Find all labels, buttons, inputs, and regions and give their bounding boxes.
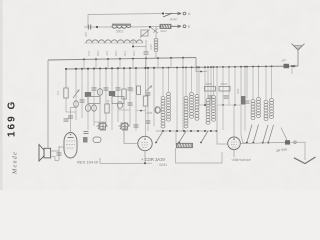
node bus1 x96 [95,58,97,60]
node bus2 x94 [93,68,95,70]
wire bus1-bus2 x183 [182,58,184,68]
speaker driver [44,148,51,158]
tuning cap col124 [121,122,129,130]
component col154 [155,107,160,114]
node bus2 x112 [111,67,113,69]
tube V2 envelope [138,136,152,150]
coil spring 8 [257,97,261,117]
tube V2 electrodes [142,143,149,148]
wire bus1-bus2 x84 [83,59,85,68]
node bus2 x106 [105,67,107,69]
trimmer T2 box [141,30,148,36]
coil spring 1 [167,92,171,121]
node h4 [140,110,142,112]
node sw177 [176,130,178,132]
wire frame under V3 [175,131,177,146]
node r205 [204,104,206,106]
resistor V2 anode [143,96,147,106]
wire loop under V3 [176,148,223,163]
coil spring 10 [270,98,274,118]
wire bus1-bus2 x108 [107,59,109,68]
wire heater line [100,162,152,164]
coil L3 [154,38,158,51]
capacitor extra5 [128,103,133,105]
node v177 [176,67,178,69]
wire hlink1 [66,111,76,113]
node swrb1 [252,142,254,144]
bus 2 (chassis rail) [66,66,298,69]
node a3 [132,46,134,48]
capacitor V1 top [68,116,73,118]
capacitor extra2 [146,121,151,123]
node bus2 x82 [81,68,83,70]
wire top frame [88,14,163,15]
node v205 [204,66,206,68]
resistor near V1 [83,137,88,143]
node coil4 [196,66,198,68]
wire v235 [234,67,236,105]
component gang cap right [119,123,129,129]
wire column x112 [111,68,113,130]
node coil2 [185,66,187,68]
node s1 [162,12,164,14]
wire bus1-bus2 x120 [119,59,121,69]
paper edge shading [0,0,3,190]
tube V2 tip [144,138,146,140]
wire v241 [240,67,242,105]
wire v205 [204,67,206,105]
node swrb0 [246,142,248,144]
switch contact 1 [179,131,186,143]
wire under coils [84,42,143,44]
resistor R0 hatched [160,24,171,28]
wire bus1-bus2 x146 [145,58,147,68]
node bus2 x76 [75,68,77,70]
tube V1 anode [68,137,74,139]
resistor R15 dark [241,96,246,105]
component extra1 [74,101,79,107]
capacitor col136 [134,125,139,127]
wire hlink3 [118,109,130,111]
node bus1 x183 [182,57,184,59]
wire bus2 stub [196,67,207,72]
wire v245 [244,67,246,131]
transformer can 1 [88,97,100,104]
capacitor extra3 [64,119,69,121]
wire diag to JM [281,128,287,141]
paper mottle overlay [0,0,1,1]
wire v247 [246,67,248,99]
wire V3 right lead [240,142,285,143]
wire v223 [222,67,224,105]
node v292 [291,65,293,67]
tube V1 grid dashes [66,141,75,148]
node coil0 [162,67,164,69]
wire bus1-bus2 x96 [95,59,97,68]
node swrb3 [267,142,269,144]
wire coil6 top [213,67,215,95]
component col118 [117,102,122,109]
wire bus2 left drop [65,69,67,88]
wire speaker top [47,60,49,148]
node coil6 [213,66,215,68]
capacitor col118 [116,88,121,90]
node bus2 x130 [129,67,131,69]
node bus1 x146 [145,57,147,59]
wire coil2 top [185,67,187,96]
wire col 156 [155,27,157,38]
trimmer arrow T1 [150,27,158,33]
resistor extra4 [105,104,109,113]
node bus2 x118 [117,67,119,69]
node sw163 [162,130,164,132]
capacitor col82 [80,100,85,102]
wire hlink4 [137,110,146,112]
node v245 [244,66,246,68]
wire column x94 [93,69,95,126]
wire V3 top lead [233,105,235,137]
node heater [144,162,146,164]
node r223 [222,104,224,106]
wire bus1-bus2 x158 [157,58,159,68]
wire col 59 [58,146,60,160]
trimmer T2 arrow [140,30,150,38]
resistor col88 dark [85,92,91,97]
node coil3 [191,66,193,68]
node stub [200,71,202,73]
tuning cap col100 [99,122,107,130]
resistor R20 hatched [177,143,193,147]
node v241 [240,66,242,68]
wire coil8 top [258,67,260,97]
capacitor C1 [88,25,90,30]
node coil1 [168,67,170,69]
wire JM right [290,142,305,160]
coil L2b [105,40,124,43]
node bus2 x100 [99,67,101,69]
switch contact r3 [268,125,273,143]
component blob V1r [156,107,161,113]
component gang cap left [97,123,107,129]
wire bus1 right drop [195,58,197,67]
wire bus1-bus2 x171 [170,58,172,68]
bus 1 (HT rail) [48,58,196,61]
coil spring 3 [190,92,194,118]
switch contact r1 [253,125,258,143]
wire V2 bottom [144,151,146,164]
wire v183 [182,67,184,131]
wire coil9 top [265,66,267,100]
node bus1 x158 [157,57,159,59]
wire speaker right2 [51,157,59,161]
node jm [294,141,297,144]
node sw184 [183,130,185,132]
node coil8 [258,66,260,68]
switch contact 2 [201,131,208,143]
speaker cone [39,145,44,162]
wire v292 [291,66,293,74]
wire column x130 [129,68,131,126]
node bus2 x148 [147,67,149,69]
node sw170 [169,130,171,132]
node r235 [234,104,236,106]
node v211 [210,66,212,68]
wire hlink2 [94,121,106,123]
wire bus1-bus2 x133 [132,59,134,69]
switch contact 0 [156,131,163,143]
node v223 [222,66,224,68]
wire V3 left lead [217,105,228,144]
wire drop left [87,15,89,28]
node sw198 [197,130,199,132]
node bus2 x154 [153,67,155,69]
wire antenna row [84,26,112,28]
resistor R5 [137,86,141,95]
wire coil7 top [252,67,254,99]
wire arrow to terminal E [172,25,182,28]
capacitor col130 [128,88,133,90]
wire v229 [228,67,230,105]
wire column x82 [81,69,83,118]
node bus1 x84 [83,58,85,60]
node swb0 [155,142,157,144]
coil spring 4 [195,94,199,120]
wire c2 drop2 [145,54,147,58]
transformer can 2 [112,97,124,104]
wire column x100 [99,69,101,130]
capacitor C11 [224,96,229,98]
resistor col66 [64,88,68,98]
wire V2 left lead [124,130,138,144]
component rounded box [93,137,101,143]
node a1 [96,26,98,28]
tube V1 envelope [64,133,77,159]
tube V3 envelope [228,137,241,150]
wire v199 [198,67,200,105]
wire coil4 top [196,67,198,94]
resistor col112 dark [109,91,115,96]
wire drop 241 [240,105,242,135]
node bus2 x136 [135,67,137,69]
component col88 [85,105,90,112]
wire column x66 [65,69,67,112]
wire coil5 top [207,67,209,98]
node v247 [246,66,248,68]
wire column x76 [75,69,77,120]
capacitor C2 [144,52,149,54]
node V2 top [144,67,146,69]
wire column x154 [153,68,155,126]
wire column x118 [117,68,119,122]
wire speaker right1 [51,150,59,152]
switch contact r0 [247,125,252,143]
node bus1 x171 [170,57,172,59]
node bus2 x66 [65,68,67,70]
wire V2 top lead [145,58,147,136]
wire column x136 [135,68,137,131]
coil L1 body [112,24,131,29]
terminal A [183,12,186,15]
wire coil1 top [168,68,170,92]
node sw216.5 [216,130,218,132]
wire V3 bottom [233,150,235,157]
tube V1 tip [70,134,72,136]
node v217 [216,66,218,68]
resistor R11 [219,87,230,92]
node bus2 x124 [123,67,125,69]
choke JM998 [285,140,290,144]
node v183 [182,67,184,69]
resistor R10 [205,87,216,92]
capacitor right1 [245,101,250,103]
coil spring 7 [251,99,255,119]
wire coil3 top [191,67,193,92]
node v235 [234,66,236,68]
capacitor col94 [92,88,97,90]
wire V1 left lead [59,146,64,148]
wire L shape a [133,40,146,47]
wire V1 top lead [71,108,77,133]
wire bus small arrow [294,65,297,67]
wire heater rise [99,158,101,164]
node v199 [198,66,200,68]
node coil10 [271,65,273,67]
node swrb2 [262,142,264,144]
node bus1 x108 [107,58,109,60]
capacitor col106 [104,88,109,90]
node a2 [149,26,151,28]
wire column x124 [123,68,125,143]
wire drop 223 [222,105,224,130]
wire coil10 top [271,66,273,98]
terminal E [183,25,186,28]
coil L2a [86,40,105,43]
earth arrow [294,157,316,164]
potentiometer P2 [146,86,152,92]
node sw211 [210,130,212,132]
node coil5 [207,66,209,68]
wire col 156b [155,52,157,58]
wire c2 drop [145,47,147,52]
wire link row [199,104,211,106]
node swb2 [200,142,202,144]
wire column x88 [87,69,89,130]
node bus-r [293,65,295,67]
antenna symbol [292,44,305,51]
wire after L1 [131,26,163,29]
capacitor C30 [57,153,62,155]
coil spring 6 [212,95,216,121]
resistor col124 [122,89,126,99]
node sw205 [204,130,206,132]
coil spring 5 [206,98,210,124]
wire link row2 [217,104,241,106]
coil spring 9 [264,100,268,120]
wire v211 [210,67,212,105]
wire antenna lead [297,50,299,66]
component col100 [97,89,102,96]
wire column x106 [105,68,107,126]
coil L2c [124,40,143,43]
node bus1 x133 [132,58,134,60]
node coil7 [252,66,254,68]
wire rail left [241,135,246,143]
capacitor C10 [208,96,213,98]
potentiometer col76 [73,90,79,98]
capacitor col148 [146,93,151,95]
node bus2 x88 [87,68,89,70]
node swb1 [178,142,180,144]
node bus1 x120 [119,58,121,60]
wire arrow to terminal A [165,12,181,15]
node coil9 [265,65,267,67]
wire coil0 top [162,68,164,96]
wire v217 [216,67,218,105]
switch contact r2 [263,125,268,143]
tube V3 tip [233,138,235,140]
component extra6 [92,105,97,111]
node sw191 [190,130,192,132]
switch S1 blade [163,13,172,17]
wire column x148 [147,68,149,131]
node v229 [228,66,230,68]
tube V3 electrodes [231,142,237,147]
choke JPF on bus [284,64,290,68]
coil spring 2 [184,96,188,128]
wire v177 [176,68,178,131]
capacitor near V1 [84,131,89,133]
coil spring 0 [161,96,165,128]
wire switch rail [156,130,217,132]
